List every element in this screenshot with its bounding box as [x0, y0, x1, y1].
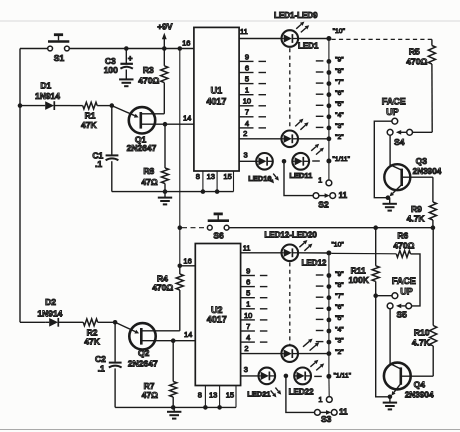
U2 pin 4 stub: [241, 333, 255, 342]
svg-text:.1: .1: [98, 364, 105, 374]
svg-text:7: 7: [246, 322, 250, 331]
LED16 (row 2, LED chain): [281, 345, 298, 362]
wire ground rail (bottom half): [115, 406, 236, 408]
svg-text:FACE: FACE: [382, 97, 406, 107]
node "8" (bottom column): [327, 282, 345, 289]
resistor R11 100K: [349, 228, 380, 296]
junction R7 tap: [171, 338, 176, 343]
wire node "1/11" to terminal 1: [328, 161, 330, 180]
svg-text:"10": "10": [331, 241, 344, 248]
svg-text:"1/11": "1/11": [332, 156, 350, 163]
svg-text:8: 8: [196, 172, 200, 181]
svg-text:"5": "5": [335, 315, 344, 322]
junction D1 tap: [18, 103, 23, 108]
resistor R6 470Ω: [393, 230, 414, 257]
svg-text:4: 4: [245, 119, 249, 128]
svg-text:1: 1: [318, 395, 322, 404]
svg-text:16: 16: [182, 39, 190, 48]
wire S4 to Q3 collector: [390, 135, 402, 170]
junction Q3 emitter / ground: [386, 195, 391, 200]
svg-text:Q2: Q2: [138, 348, 150, 358]
LED21 light arrows: [271, 388, 282, 398]
svg-text:S6: S6: [213, 231, 224, 241]
svg-text:UP: UP: [386, 107, 399, 117]
wire +9V rail down to lower half: [179, 49, 181, 228]
U1 pin 11 stub and label: [239, 27, 281, 39]
wire rail to S6 (dashed): [182, 227, 206, 229]
LED1 light arrows: [296, 22, 309, 33]
junction LED10 / LED11 / S2: [282, 159, 287, 164]
svg-text:+9V: +9V: [157, 22, 173, 32]
LED21: [247, 368, 275, 399]
LED11: [289, 153, 312, 180]
svg-text:S4: S4: [394, 137, 405, 147]
wire dashes pin 10 to node "5": [259, 104, 324, 107]
junction pin 13 / ground rail: [215, 189, 220, 194]
wire top rail to S1: [20, 48, 48, 50]
ground (below R8): [158, 192, 172, 205]
node "7" (bottom column): [327, 293, 345, 300]
node "4" (top column): [327, 112, 345, 119]
pushbutton S1: [48, 35, 70, 64]
node "9" (top column): [327, 57, 345, 64]
ground (below Q3): [383, 198, 397, 211]
LED22: [289, 368, 314, 397]
wire LED to node "2": [299, 138, 329, 140]
switch S5: [387, 303, 411, 320]
svg-text:2: 2: [243, 129, 247, 138]
svg-text:"3": "3": [335, 123, 344, 130]
resistor R10 4.7K: [412, 228, 437, 377]
svg-text:S3: S3: [321, 414, 332, 424]
svg-text:9: 9: [246, 266, 250, 275]
junction pin 8 / ground rail: [201, 189, 206, 194]
wire U2 pin 2 to LED: [241, 353, 281, 355]
LED10 light arrows: [268, 174, 279, 184]
junction U2 pin 16: [178, 264, 183, 269]
node "8" (top column): [327, 68, 345, 75]
svg-text:LED12: LED12: [301, 259, 326, 268]
switch S2: [313, 193, 336, 210]
transistor Q4 2N3904: [384, 363, 434, 400]
ground (below R7): [167, 407, 181, 418]
node "4" (bottom column): [327, 326, 345, 333]
wire R11 junction down to Q4 emitter: [376, 296, 390, 397]
svg-text:10: 10: [244, 311, 252, 320]
svg-text:2N3904: 2N3904: [405, 390, 434, 399]
svg-text:LED21: LED21: [247, 390, 270, 399]
terminal 1 (top): [318, 176, 332, 186]
wire LED22 to node "1/11" (dash): [314, 375, 322, 377]
LED5 (row 2, LED chain): [281, 131, 298, 148]
U2 pin 1 stub: [241, 300, 255, 309]
svg-text:4.7K: 4.7K: [407, 214, 426, 224]
node "3" (top column): [327, 123, 345, 130]
wire dashes pin 5 to node "7" (bottom): [260, 296, 324, 299]
svg-text:"6": "6": [335, 304, 344, 311]
svg-text:47Ω: 47Ω: [141, 177, 157, 187]
junction R11 top: [373, 225, 378, 230]
terminal FACE UP (bottom): [392, 293, 398, 299]
svg-text:470Ω: 470Ω: [138, 76, 159, 86]
U2 pin 10 stub: [241, 311, 255, 320]
wire node "10" to R6: [331, 252, 396, 254]
svg-text:47K: 47K: [81, 120, 97, 130]
svg-text:UP: UP: [400, 286, 413, 296]
resistor R8 47Ω: [141, 124, 168, 191]
node "5" (top column): [327, 101, 345, 108]
node "1/11" (top): [326, 156, 350, 163]
svg-text:470Ω: 470Ω: [406, 57, 427, 67]
svg-text:4017: 4017: [206, 97, 226, 107]
svg-text:S1: S1: [54, 53, 65, 63]
resistor R5 470Ω: [406, 39, 435, 132]
ground (below Q4): [383, 397, 397, 410]
svg-text:47K: 47K: [84, 337, 100, 347]
svg-text:LED12-LED20: LED12-LED20: [264, 231, 317, 240]
junction C3 tap: [124, 46, 129, 51]
diode D2 1N914: [20, 297, 74, 327]
U2 pin 5 stub: [241, 289, 255, 298]
svg-text:U1: U1: [211, 86, 223, 96]
wire S6 to R9/R10 junction: [229, 227, 433, 229]
LED12 light arrows: [299, 240, 312, 251]
svg-text:"8": "8": [335, 68, 344, 75]
wire R11 junction to FACE UP terminal: [376, 295, 392, 297]
wire LED to node "2" (bottom): [299, 353, 329, 355]
node "5" (bottom column): [327, 315, 345, 322]
wire dashes pin 7 to node "4": [259, 115, 324, 118]
junction Q4 emitter / ground: [388, 395, 393, 400]
svg-text:4017: 4017: [207, 315, 227, 325]
power +9V: [157, 22, 173, 49]
svg-text:470Ω: 470Ω: [393, 241, 414, 251]
node "10" (bottom): [326, 241, 344, 255]
capacitor C1 .1: [92, 106, 118, 192]
node "10" (top): [326, 28, 345, 41]
svg-text:"1/11": "1/11": [334, 373, 352, 380]
node "6" (top column): [327, 90, 345, 97]
resistor R2 47K: [74, 319, 115, 347]
node "6" (bottom column): [327, 304, 345, 311]
label FACE UP (bottom): [392, 276, 416, 296]
U1 pin 5 stub: [239, 75, 253, 84]
wire dashes pin 10 to node "5" (bottom): [260, 318, 324, 321]
diode D1 1N914: [20, 81, 71, 110]
node "2" (top column): [327, 134, 345, 141]
wire FACE UP terminal to Q3 emitter: [374, 121, 392, 198]
svg-text:14: 14: [183, 113, 191, 122]
wire junction to S3: [286, 376, 315, 413]
wire LED chain (dashed, LED13-LED20): [289, 262, 291, 344]
node "3" (bottom column): [327, 337, 345, 344]
wire node "10" to R5 (dashed): [332, 38, 432, 40]
svg-text:6: 6: [246, 278, 250, 287]
U1 pin 6 stub: [239, 63, 253, 72]
svg-text:"4": "4": [335, 326, 344, 333]
svg-text:R11: R11: [351, 266, 366, 276]
svg-text:R10: R10: [414, 328, 430, 338]
svg-text:1: 1: [318, 176, 322, 185]
U1 pin 13 stub: [207, 171, 217, 192]
svg-text:R9: R9: [411, 204, 422, 214]
LED10: [248, 153, 273, 183]
svg-text:100K: 100K: [349, 275, 370, 285]
svg-text:LED1-LED9: LED1-LED9: [274, 11, 318, 20]
junction R11 / FACE UP: [373, 293, 378, 298]
U1 pin 3 stub and label: [239, 151, 256, 162]
LED22 light arrows: [310, 360, 324, 371]
wire node column (bottom): [328, 253, 330, 376]
U2 pin 3 stub and label: [241, 365, 258, 376]
svg-text:"4": "4": [335, 112, 344, 119]
junction R8 / ground: [163, 189, 168, 194]
node "2" (bottom column): [327, 349, 345, 356]
svg-text:"7": "7": [335, 79, 344, 86]
U1 pin 1 stub: [239, 86, 253, 95]
transistor Q3 2N3904: [384, 156, 441, 197]
svg-text:3: 3: [244, 365, 248, 374]
U1 pin 8 stub: [196, 171, 203, 192]
svg-text:S2: S2: [318, 200, 329, 210]
svg-text:11: 11: [243, 244, 251, 253]
svg-text:R3: R3: [143, 65, 154, 75]
svg-text:LED11: LED11: [289, 171, 312, 180]
svg-text:470Ω: 470Ω: [152, 283, 173, 293]
wire dashes pin 4 to node "3" (bottom): [260, 341, 324, 344]
junction R8 tap: [163, 122, 168, 127]
svg-text:2N2647: 2N2647: [127, 143, 157, 153]
IC U2 4017 decade counter: [195, 244, 240, 386]
svg-text:Q3: Q3: [416, 156, 428, 166]
svg-text:2: 2: [244, 344, 248, 353]
U2 pin 8 stub: [198, 386, 206, 408]
svg-text:1: 1: [246, 300, 250, 309]
svg-text:"2": "2": [335, 349, 344, 356]
junction U2 pin 8 / ground rail: [203, 405, 208, 410]
svg-text:LED1: LED1: [298, 41, 319, 50]
wire to U2 pin 16: [180, 265, 196, 267]
wire ground rail (top half): [112, 191, 234, 193]
wire LED12 to node "10": [299, 252, 329, 254]
svg-text:+: +: [128, 54, 133, 63]
U2 pin 13 stub: [209, 386, 220, 408]
capacitor C3 100: [104, 49, 133, 79]
svg-text:1N914: 1N914: [35, 91, 60, 101]
wire dashes pin 4 to node "3": [259, 126, 324, 129]
svg-text:"10": "10": [333, 28, 346, 35]
svg-text:"6": "6": [335, 90, 344, 97]
U2 pin 7 stub: [241, 322, 255, 331]
node "7" (top column): [327, 79, 345, 86]
svg-text:2N2647: 2N2647: [128, 358, 158, 368]
svg-text:R8: R8: [143, 166, 154, 176]
svg-text:FACE: FACE: [392, 276, 416, 286]
ground (below C3): [119, 79, 133, 86]
capacitor C2 .1: [95, 322, 122, 407]
svg-text:6: 6: [245, 63, 249, 72]
svg-text:11: 11: [339, 191, 348, 200]
svg-text:LED10: LED10: [248, 174, 271, 183]
wire dashes pin 1 to node "6": [259, 93, 324, 96]
svg-text:R6: R6: [397, 230, 408, 240]
junction R1 / C1 / Q1 emitter: [110, 103, 115, 108]
wire dashes pin 9 to node "9": [259, 60, 324, 63]
svg-text:D2: D2: [45, 297, 56, 307]
wire U1 pin 2 to LED: [239, 138, 281, 140]
LED11 light arrows: [311, 144, 324, 155]
svg-text:R5: R5: [409, 46, 420, 56]
svg-text:2N3904: 2N3904: [413, 167, 442, 176]
svg-text:5: 5: [246, 289, 250, 298]
label FACE UP (top): [382, 97, 406, 118]
wire junction to S2: [284, 161, 313, 195]
U2 pin 9 stub: [241, 266, 255, 275]
svg-text:"5": "5": [335, 101, 344, 108]
svg-text:"9": "9": [335, 57, 344, 64]
U1 pin 7 stub: [239, 108, 253, 117]
resistor R4 470Ω: [152, 266, 183, 331]
junction LED21 / LED22 / S3: [284, 374, 289, 379]
U2 pin 6 stub: [241, 278, 255, 287]
LED12: [282, 245, 327, 268]
junction +9V / R3: [162, 46, 167, 51]
svg-text:15: 15: [223, 172, 231, 181]
svg-text:.1: .1: [95, 159, 102, 169]
wire S1 to U1 pin 16: [69, 48, 193, 50]
terminal FACE UP (top): [392, 118, 398, 124]
junction U2 pin 13 / ground rail: [217, 405, 222, 410]
svg-text:Q4: Q4: [414, 380, 426, 390]
svg-text:9: 9: [245, 52, 249, 61]
svg-text:"3": "3": [335, 337, 344, 344]
wire dashes pin 1 to node "6" (bottom): [260, 307, 324, 310]
svg-text:"8": "8": [335, 282, 344, 289]
wire dashes pin 5 to node "7": [259, 82, 324, 85]
svg-text:13: 13: [207, 172, 215, 181]
wire +9V drop to S6/R4: [179, 228, 181, 266]
svg-text:4: 4: [246, 333, 250, 342]
node "1/11" (bottom): [326, 373, 351, 380]
wire dashes pin 6 to node "8": [259, 71, 324, 74]
wire R5 to S4: [413, 131, 433, 133]
transistor Q1 2N2647: [112, 106, 165, 153]
U2 pin 11 stub and label: [241, 244, 281, 253]
wire Q2 base1 to U2 pin 14: [173, 340, 195, 342]
svg-text:10: 10: [243, 97, 251, 106]
U2 pin 15 stub: [226, 386, 236, 408]
wire dashes pin 9 to node "9" (bottom): [260, 274, 324, 277]
LED row2 light arrows (bottom): [303, 339, 319, 351]
svg-text:"2": "2": [335, 134, 344, 141]
svg-text:"7": "7": [335, 293, 344, 300]
wire LED11 to node "1/11" (dash): [312, 160, 320, 162]
svg-text:5: 5: [245, 75, 249, 84]
resistor R1 47K: [71, 102, 112, 130]
wire Q1 base1 to U1 pin 14: [165, 123, 194, 125]
svg-text:100: 100: [104, 65, 118, 75]
svg-text:"9": "9": [335, 271, 344, 278]
wire node "1/11" to terminal 1 (bottom): [328, 376, 330, 396]
svg-text:D1: D1: [40, 81, 51, 91]
IC U1 4017 decade counter: [194, 27, 239, 171]
U1 pin 15 stub: [223, 171, 233, 192]
junction R7 / ground: [171, 405, 176, 410]
junction +9V rail drop: [178, 46, 183, 51]
svg-text:16: 16: [183, 257, 191, 266]
svg-text:4.7K: 4.7K: [412, 337, 431, 347]
svg-text:1: 1: [245, 86, 249, 95]
svg-text:11: 11: [339, 408, 348, 417]
U1 pin 4 stub: [239, 119, 253, 128]
svg-text:8: 8: [198, 390, 202, 399]
LED1: [282, 30, 319, 50]
wire R6 to S5: [411, 254, 421, 306]
wire LED chain (dashed, LED2-LED9): [289, 48, 291, 129]
svg-text:47Ω: 47Ω: [142, 390, 158, 400]
LED row2 light arrows: [295, 119, 308, 130]
svg-text:11: 11: [240, 27, 248, 36]
U1 pin 10 stub: [239, 97, 253, 106]
junction rail / S6 branch: [178, 225, 183, 230]
U1 pin 9 stub: [239, 52, 253, 61]
svg-text:3: 3: [244, 151, 248, 160]
svg-text:S5: S5: [396, 310, 407, 320]
svg-text:7: 7: [245, 108, 249, 117]
switch S4: [387, 129, 412, 147]
resistor R3 470Ω: [138, 49, 168, 114]
svg-text:LED22: LED22: [289, 387, 314, 396]
wire dashes pin 7 to node "4" (bottom): [260, 330, 324, 333]
resistor R9 4.7K: [407, 177, 437, 228]
node "9" (bottom column): [327, 271, 345, 278]
svg-text:14: 14: [184, 330, 192, 339]
switch S3: [315, 410, 338, 425]
terminal 1 (bottom): [318, 395, 332, 404]
wire dashes pin 6 to node "8" (bottom): [260, 285, 324, 288]
transistor Q2 2N2647: [115, 322, 180, 368]
junction R2 / C2 / Q2 emitter: [113, 320, 118, 325]
wire S5 to Q4 collector: [390, 309, 401, 369]
svg-text:15: 15: [226, 390, 234, 399]
svg-text:13: 13: [209, 390, 217, 399]
junction R9 / R10: [431, 225, 436, 230]
svg-text:1N914: 1N914: [37, 309, 62, 319]
wire left rail: [19, 49, 21, 323]
resistor R7 47Ω: [142, 341, 177, 408]
wire LED1 to node "10": [299, 38, 329, 40]
wire node column (top): [328, 39, 330, 162]
pushbutton S6: [207, 214, 229, 241]
